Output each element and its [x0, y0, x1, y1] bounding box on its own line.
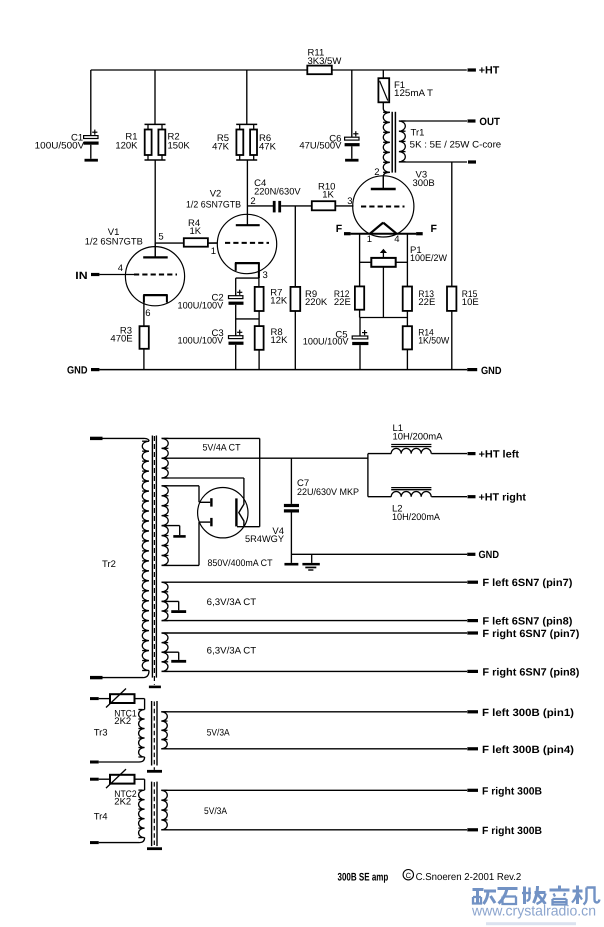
- label R10: [318, 182, 335, 201]
- svg-text:22E: 22E: [418, 297, 435, 308]
- svg-text:C: C: [406, 871, 412, 880]
- label C3: [178, 328, 224, 346]
- pin labels V1: 5, 4, 6: [118, 232, 164, 319]
- svg-text:5: 5: [158, 232, 163, 243]
- label Tr4: [94, 812, 108, 823]
- label F1: [394, 80, 433, 99]
- svg-text:12K: 12K: [271, 335, 289, 346]
- label R3: [110, 325, 132, 344]
- Tr1 secondary winding: [399, 121, 406, 162]
- resistor R3 470E (V1 cathode): [140, 303, 149, 370]
- wire: rail to R1/R2 pair: [154, 70, 156, 124]
- wire: R4 to V2 grid: [208, 242, 218, 244]
- svg-text:1K: 1K: [322, 189, 334, 200]
- terminal +HT right: [468, 492, 527, 504]
- wire: Tr1 secondary bottom: [399, 161, 467, 163]
- svg-text:1K/50W: 1K/50W: [418, 336, 449, 347]
- thermistor NTC1 2K2: [106, 689, 135, 708]
- svg-text:IN: IN: [75, 270, 87, 282]
- svg-text:22U/630V MKP: 22U/630V MKP: [297, 487, 359, 498]
- svg-text:120K: 120K: [115, 141, 138, 152]
- label R15: [462, 289, 479, 308]
- terminal F left 300B (pin1): [467, 707, 574, 719]
- capacitor C1 100U/500V: [84, 70, 99, 159]
- svg-text:100U/100V: 100U/100V: [178, 300, 224, 311]
- watermark chinese characters: [473, 886, 600, 905]
- Tr4 screen ground bar: [147, 847, 162, 850]
- svg-text:22E: 22E: [334, 297, 351, 308]
- wire: R1R2 bottom to V1 plate: [154, 160, 156, 257]
- resistors R5 47K / R6 47K in parallel: [236, 124, 257, 160]
- HV center tap to ground bar: [162, 526, 186, 538]
- svg-text:4: 4: [118, 263, 123, 274]
- label Tr2: [102, 559, 116, 570]
- wire: 5V bottom lead to V4 filament left: [162, 478, 244, 498]
- svg-text:1/2 6SN7GTB: 1/2 6SN7GTB: [85, 236, 143, 247]
- label R12: [334, 289, 351, 308]
- filament F line with terminals: [336, 223, 438, 235]
- Tr1 primary winding: [383, 109, 390, 188]
- wire: V2 plate tap to C4: [247, 205, 273, 207]
- resistor R9 220K (grid leak): [291, 206, 301, 370]
- resistor R8 12K: [255, 326, 264, 370]
- svg-text:47K: 47K: [212, 141, 230, 152]
- wire: Tr4 primary bottom lead: [99, 842, 139, 844]
- wire: Tr4 sec bottom to terminal: [161, 829, 467, 831]
- label C7: [297, 478, 359, 498]
- label C2: [178, 292, 224, 311]
- wire: Tr3 sec top to terminal: [161, 711, 467, 713]
- svg-text:100E/2W: 100E/2W: [410, 253, 447, 264]
- Tr2 primary terminal top: [90, 437, 103, 440]
- svg-text:12K: 12K: [270, 296, 288, 307]
- fuse F1 125mA T: [378, 70, 389, 109]
- svg-text:100U/100V: 100U/100V: [178, 336, 224, 347]
- label 5V/3A #1: [207, 727, 231, 738]
- triode V1 1/2 6SN7GTB: [125, 243, 184, 306]
- resistor R11 3K3/5W (series in rail): [307, 47, 341, 74]
- terminal F right 6SN7 (pin8): [467, 666, 579, 678]
- Tr3 secondary winding 5V/3A: [161, 712, 167, 749]
- svg-text:10E: 10E: [462, 297, 479, 308]
- label R9: [305, 289, 328, 308]
- svg-text:5V/3A: 5V/3A: [204, 806, 228, 817]
- svg-text:F left 300B (pin4): F left 300B (pin4): [482, 744, 574, 756]
- svg-text:470E: 470E: [110, 333, 132, 344]
- ground bar below C1: [85, 159, 98, 162]
- title 300B SE amp: [338, 871, 389, 883]
- svg-text:100U/500V: 100U/500V: [35, 140, 85, 151]
- label 5V/4A CT: [203, 443, 241, 454]
- svg-text:F left 6SN7 (pin7): F left 6SN7 (pin7): [482, 577, 572, 589]
- label NTC2: [114, 789, 136, 808]
- label Tr3: [94, 728, 108, 739]
- label C5: [303, 329, 349, 347]
- wire: HV bottom to V4 anode 2: [162, 522, 200, 565]
- Tr3 core with screen: [152, 701, 157, 770]
- wire: 5V top lead to V4 filament right: [162, 438, 260, 526]
- label P1: [410, 245, 447, 264]
- label L2: [392, 504, 441, 523]
- svg-text:1K: 1K: [190, 226, 202, 237]
- wire: Tr1 secondary top to OUT: [399, 120, 467, 122]
- svg-text:+HT: +HT: [479, 65, 500, 77]
- svg-text:6,3V/3A CT: 6,3V/3A CT: [207, 646, 257, 657]
- power triode V3 300B: [353, 176, 414, 237]
- svg-text:125mA T: 125mA T: [394, 88, 433, 99]
- svg-text:5V/4A CT: 5V/4A CT: [203, 443, 241, 454]
- svg-text:OUT: OUT: [479, 116, 500, 128]
- svg-text:F left 300B (pin1): F left 300B (pin1): [482, 707, 574, 719]
- svg-text:Tr2: Tr2: [102, 559, 116, 570]
- resistor R4 1K: [155, 238, 217, 247]
- svg-text:5R4WGY: 5R4WGY: [245, 534, 285, 545]
- terminal F left 6SN7 (pin7): [467, 577, 572, 589]
- Tr2 screen ground bar: [149, 686, 161, 689]
- terminal F right 6SN7 (pin7): [467, 628, 579, 640]
- terminal secondary low end: [468, 160, 476, 163]
- label 6,3V/3A CT #2: [207, 646, 257, 657]
- wire: cathode junction row: [360, 317, 408, 319]
- earth ground symbol: [302, 554, 319, 570]
- svg-text:150K: 150K: [168, 141, 191, 152]
- svg-text:F: F: [431, 223, 438, 235]
- Tr2 primary winding: [142, 438, 149, 677]
- label V4: [245, 526, 285, 545]
- Tr2 secondary 5V/4A CT (rectifier filament): [162, 438, 169, 478]
- svg-text:5V/3A: 5V/3A: [207, 727, 231, 738]
- svg-text:300B SE amp: 300B SE amp: [338, 871, 389, 883]
- svg-text:300B: 300B: [413, 178, 435, 189]
- wire: 6,3V#2 top to terminal: [162, 632, 468, 634]
- svg-text:3: 3: [347, 196, 352, 207]
- wire: secondary low to R15: [451, 162, 453, 287]
- label R8: [271, 327, 289, 346]
- svg-text:Tr1: Tr1: [411, 127, 425, 138]
- svg-text:F right 300B: F right 300B: [482, 785, 542, 797]
- svg-text:C.Snoeren 2-2001 Rev.2: C.Snoeren 2-2001 Rev.2: [416, 872, 522, 883]
- svg-text:10H/200mA: 10H/200mA: [392, 512, 441, 523]
- capacitor C2 100U/100V: [229, 278, 259, 336]
- watermark underline smudge: [486, 922, 576, 925]
- terminal GND left: [67, 364, 99, 376]
- Tr2 secondary 6,3V/3A CT #2: [162, 633, 169, 671]
- resistors R1 120K / R2 150K in parallel: [145, 124, 166, 160]
- wire to NTC1: [99, 698, 110, 700]
- CT ground bar #1: [162, 601, 187, 613]
- wire: L1/L2 feed: [367, 454, 369, 497]
- wire to NTC2: [99, 778, 110, 780]
- svg-text:10H/200mA: 10H/200mA: [393, 431, 444, 442]
- resistor R15 10E: [447, 287, 456, 370]
- svg-text:47U/500V: 47U/500V: [299, 141, 342, 152]
- svg-text:www.crystalradio.cn: www.crystalradio.cn: [471, 904, 596, 920]
- wire: IN to V1 grid: [99, 274, 134, 276]
- Tr3 primary terminal top: [90, 697, 99, 700]
- Tr1 core: [392, 112, 395, 173]
- resistor R12 22E: [355, 286, 364, 317]
- terminal F right 300B (bottom): [467, 825, 542, 837]
- svg-text:2K2: 2K2: [114, 797, 131, 808]
- Tr2 secondary 850V/400mA CT (HV): [162, 486, 169, 566]
- wire: rail to R5/R6 pair: [246, 70, 248, 124]
- ground bar below C7: [284, 563, 298, 566]
- svg-text:6,3V/3A CT: 6,3V/3A CT: [207, 597, 257, 608]
- thermistor NTC2 2K2: [106, 769, 135, 788]
- copyright C.Snoeren: [403, 870, 522, 884]
- Tr4 core with screen: [152, 782, 157, 848]
- capacitor C4 220N/630V: [273, 201, 281, 213]
- svg-text:F left 6SN7 (pin8): F left 6SN7 (pin8): [482, 616, 572, 628]
- Tr3 primary winding: [138, 710, 144, 763]
- label R7: [270, 287, 288, 306]
- capacitor C7 22U/630V MKP: [284, 458, 299, 563]
- svg-text:2K2: 2K2: [114, 716, 131, 727]
- Tr4 secondary winding 5V/3A: [161, 790, 167, 830]
- capacitor C3 100U/100V: [229, 330, 244, 370]
- wire: HV top to V4 anode 1: [162, 486, 200, 503]
- labels R5 R6: [212, 133, 276, 152]
- label L1: [393, 423, 444, 442]
- svg-text:5K : 5E / 25W C-core: 5K : 5E / 25W C-core: [410, 139, 502, 150]
- label 5V/3A #2: [204, 806, 228, 817]
- Tr2 secondary 6,3V/3A CT #1: [162, 582, 169, 620]
- resistor R14 1K/50W: [403, 318, 412, 370]
- label 6,3V/3A CT #1: [207, 597, 257, 608]
- resistor R7 12K: [255, 278, 264, 326]
- terminal F left 300B (pin4): [467, 744, 574, 756]
- terminal GND right: [467, 365, 502, 377]
- svg-text:F right 6SN7 (pin7): F right 6SN7 (pin7): [482, 628, 579, 640]
- Tr3 screen ground bar: [147, 770, 162, 773]
- label 850V/400mA CT: [208, 558, 273, 569]
- CT ground bar #2: [162, 652, 187, 663]
- svg-text:+HT left: +HT left: [479, 449, 520, 461]
- triode V2 1/2 6SN7GTB: [217, 214, 276, 278]
- svg-text:F: F: [336, 223, 343, 235]
- svg-text:1: 1: [211, 246, 216, 257]
- wire: Tr3 primary bottom lead: [99, 761, 139, 763]
- terminal OUT: [468, 116, 501, 128]
- potentiometer P1 100E/2W (hum balance): [360, 234, 408, 318]
- wire: GND line to terminal: [291, 553, 467, 555]
- watermark url: [471, 904, 596, 920]
- svg-text:3: 3: [263, 270, 268, 281]
- label NTC1: [114, 709, 136, 728]
- svg-text:220K: 220K: [305, 297, 328, 308]
- svg-text:GND: GND: [67, 364, 88, 376]
- Tr2 primary terminal bottom: [90, 676, 103, 679]
- pin labels V2: 1, 2, 3: [211, 196, 268, 281]
- label Tr1: [410, 127, 502, 150]
- rectifier V4 5R4WGY: [198, 488, 248, 538]
- svg-text:100U/100V: 100U/100V: [303, 336, 349, 347]
- wire: Tr3 sec bottom to terminal: [161, 748, 467, 750]
- choke L1 10H/200mA: [368, 445, 467, 454]
- wire: 5V CT = +HT feed line: [162, 457, 368, 459]
- Tr4 primary winding: [138, 790, 144, 843]
- svg-text:GND: GND: [481, 365, 502, 377]
- label V1: [85, 227, 143, 247]
- svg-text:1: 1: [367, 234, 372, 245]
- terminal GND (supply): [467, 549, 499, 561]
- Tr2 core with screen: [152, 436, 156, 685]
- wire: Tr4 sec top to terminal: [161, 789, 467, 791]
- label C6: [299, 133, 342, 151]
- label R14: [418, 328, 449, 347]
- terminal F left 6SN7 (pin8): [467, 616, 572, 628]
- wire NTC2 to Tr4 primary: [135, 779, 145, 790]
- svg-text:Tr4: Tr4: [94, 812, 108, 823]
- svg-text:F right 300B: F right 300B: [482, 825, 542, 837]
- svg-text:V2: V2: [210, 189, 222, 200]
- wire: R5R6 bottom to V2 plate: [246, 160, 248, 225]
- labels R1 R2: [115, 132, 190, 152]
- svg-text:220N/630V: 220N/630V: [254, 186, 301, 197]
- svg-text:4: 4: [394, 234, 399, 245]
- terminal +HT left: [468, 449, 520, 461]
- label C1: [35, 133, 85, 152]
- wire: 6,3V#1 top to terminal: [162, 581, 468, 583]
- svg-text:850V/400mA CT: 850V/400mA CT: [208, 558, 273, 569]
- svg-text:F right 6SN7 (pin8): F right 6SN7 (pin8): [482, 666, 579, 678]
- capacitor C6 47U/500V: [345, 70, 360, 159]
- label C4: [254, 178, 301, 197]
- svg-text:GND: GND: [479, 549, 500, 561]
- svg-text:Tr3: Tr3: [94, 728, 108, 739]
- svg-text:3K3/5W: 3K3/5W: [308, 56, 342, 67]
- Tr4 primary terminal bottom: [90, 841, 99, 844]
- wire NTC1 to Tr3 primary: [135, 699, 145, 710]
- Tr3 primary terminal bottom: [90, 761, 99, 764]
- resistor R10 1K: [312, 201, 354, 210]
- wire: to Tr2 primary: [103, 437, 145, 439]
- label V2: [186, 189, 241, 211]
- wire: Tr2 primary bottom lead: [103, 677, 144, 679]
- pin labels V3: 2, 3, 1, 4: [347, 167, 399, 245]
- wire: C2/C3 midpoint to R7/R8 midpoint: [236, 318, 259, 320]
- terminal +HT: [468, 65, 500, 77]
- choke L2 10H/200mA: [368, 488, 467, 497]
- terminal IN: [75, 270, 99, 282]
- wire: C4 to R10: [281, 205, 312, 207]
- svg-text:+HT right: +HT right: [479, 492, 527, 504]
- wire: 6,3V#2 bottom to terminal: [162, 670, 468, 672]
- Tr4 primary terminal top: [90, 778, 99, 781]
- svg-text:47K: 47K: [259, 141, 277, 152]
- terminal F right 300B (top): [467, 785, 542, 797]
- wire: 6,3V#1 bottom to terminal: [162, 620, 468, 622]
- label R13: [418, 289, 435, 308]
- svg-text:6: 6: [145, 308, 150, 319]
- wire: +HT top supply rail: [91, 69, 467, 71]
- svg-text:2: 2: [374, 167, 379, 178]
- label V3: [413, 170, 435, 190]
- ground bar below C6: [345, 159, 358, 162]
- wire: GND rail: [99, 369, 467, 371]
- resistor R13 22E: [403, 287, 412, 318]
- capacitor C5 100U/100V: [352, 318, 368, 370]
- svg-text:1/2 6SN7GTB: 1/2 6SN7GTB: [186, 199, 241, 210]
- label R4: [188, 218, 202, 237]
